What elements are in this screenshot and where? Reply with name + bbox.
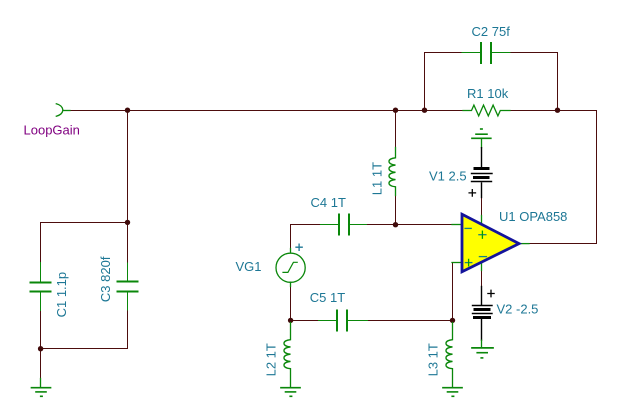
op-amp U1 pins: [452, 216, 529, 271]
wire non-inverting corner down: [452, 263, 454, 321]
wire C5 right: [368, 320, 453, 322]
inductor L1: [389, 148, 396, 196]
ground above V1 (inverted): [472, 129, 491, 148]
wire L1 top stub: [395, 111, 397, 148]
port LoopGain symbol: [56, 104, 70, 116]
source VG1: [276, 249, 305, 287]
node junction C1/C3 top: [125, 220, 130, 225]
svg-text:C3 820f: C3 820f: [98, 256, 113, 302]
label VG1 plus: [296, 244, 302, 250]
inductor L2: [284, 323, 291, 388]
op-amp U1 triangle: [462, 214, 519, 271]
wire L1 bottom stub: [395, 196, 397, 225]
wire C1 bottom stub: [40, 311, 42, 349]
wire main horizontal net: [70, 110, 463, 112]
wire inverting input line left: [291, 224, 321, 226]
op-amp U1 polarity markers: [465, 228, 486, 265]
wire LoopGain branch down: [41, 111, 128, 223]
svg-text:C1 1.1p: C1 1.1p: [54, 272, 69, 318]
capacitor C2: [462, 43, 510, 63]
node junction C1 bottom: [38, 346, 43, 351]
capacitor C3: [118, 263, 138, 310]
ground under L2: [281, 388, 300, 397]
inductor L3: [446, 323, 453, 388]
wire V1 to op-amp top pin: [481, 198, 483, 217]
battery V1: [469, 148, 492, 198]
capacitor C1: [31, 263, 51, 311]
wire C2 right vertical: [510, 53, 558, 111]
wire op-amp bottom pin to V2: [481, 271, 483, 287]
wire R1 right to corner: [510, 110, 596, 112]
svg-text:LoopGain: LoopGain: [24, 123, 80, 138]
ground bottom-left under C1/C3: [32, 379, 51, 397]
wire VG1 bottom stub: [290, 287, 292, 321]
wire C5 left: [291, 320, 319, 322]
svg-text:C5 1T: C5 1T: [310, 290, 345, 305]
svg-text:V1 2.5: V1 2.5: [429, 169, 467, 184]
wire C4 right to op-amp: [367, 224, 453, 226]
svg-text:L2 1T: L2 1T: [264, 343, 279, 376]
battery V2: [473, 287, 495, 341]
node junction main/left: [125, 108, 130, 113]
capacitor C5: [319, 311, 368, 331]
svg-text:U1 OPA858: U1 OPA858: [499, 209, 567, 224]
ground under L3: [443, 388, 462, 397]
wire C3 top stub: [127, 223, 129, 264]
svg-text:C2 75f: C2 75f: [472, 24, 511, 39]
ground below V2: [472, 340, 493, 358]
node junction main/C2 right: [555, 108, 560, 113]
svg-text:C4 1T: C4 1T: [311, 195, 346, 210]
wire output feedback right side: [529, 111, 597, 244]
wire VG1 top stub: [290, 225, 292, 249]
svg-text:VG1: VG1: [236, 259, 262, 274]
node junction inverting/L1: [393, 222, 398, 227]
node junction C5/L3: [450, 318, 455, 323]
wire ground stub bottom-left: [40, 349, 42, 379]
node junction main/L1: [393, 108, 398, 113]
svg-text:L1 1T: L1 1T: [370, 162, 385, 195]
node junction VG1/C5: [288, 318, 293, 323]
capacitor C4: [321, 215, 367, 235]
svg-text:L3 1T: L3 1T: [426, 343, 441, 376]
wire C1 top stub: [40, 223, 42, 263]
svg-text:R1 10k: R1 10k: [467, 86, 509, 101]
wire C3 bottom stub: [41, 310, 128, 349]
wire C2 left vertical: [425, 53, 463, 111]
svg-text:V2 -2.5: V2 -2.5: [497, 301, 539, 316]
node junction main/C2 left: [422, 108, 427, 113]
resistor R1: [463, 105, 510, 116]
